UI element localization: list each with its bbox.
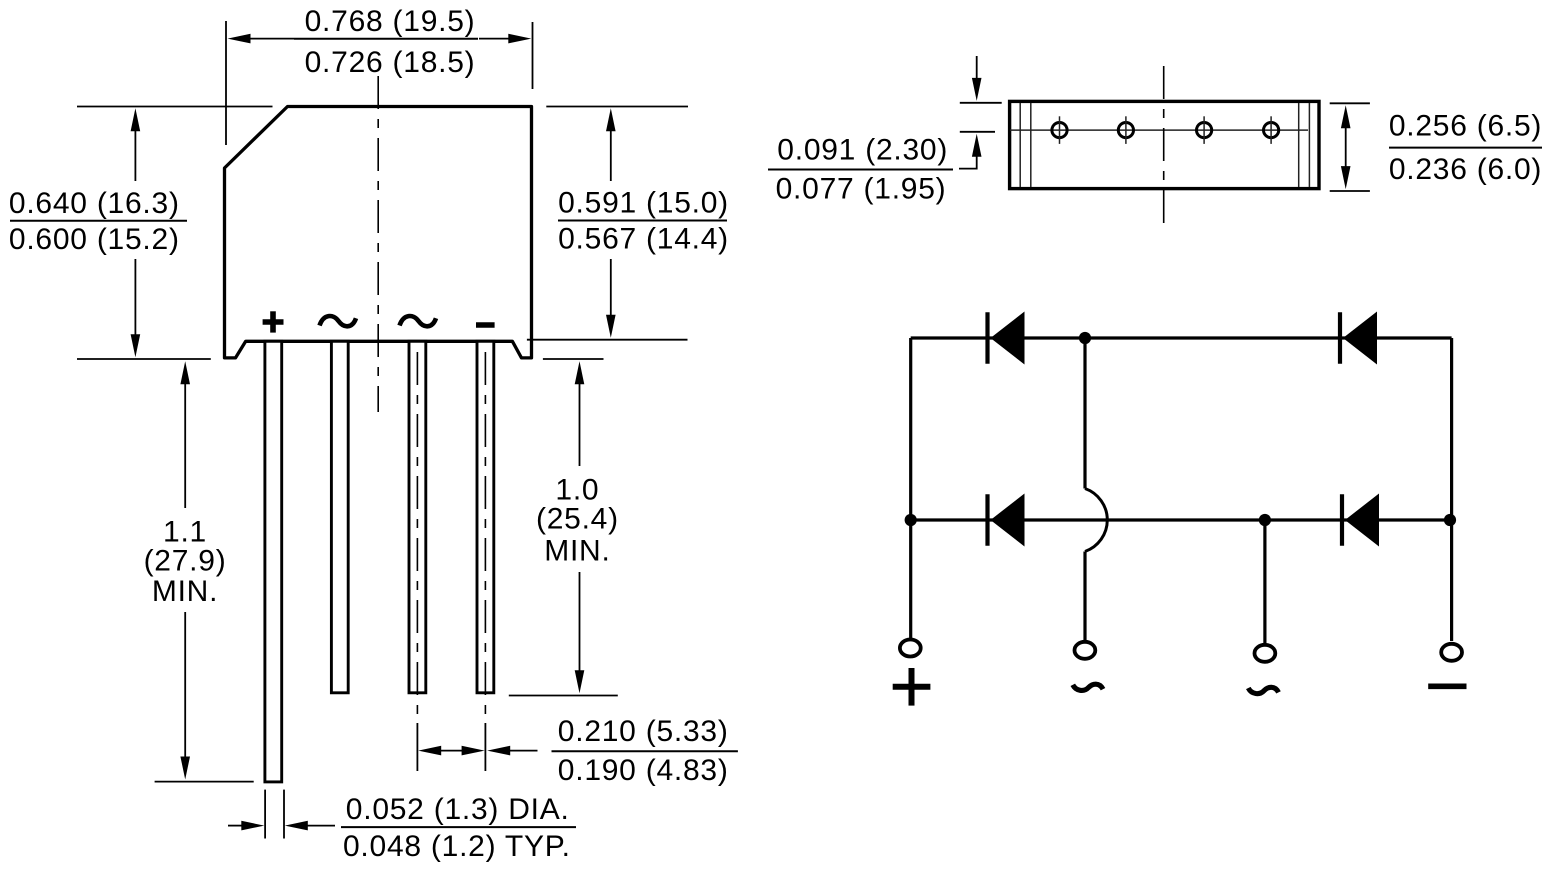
terminal circle - [1441, 644, 1462, 661]
side view: molding parting lines [1020, 103, 1309, 187]
diode D3 (middle left) [988, 494, 1025, 547]
wire: right vertical (- branch) [1450, 338, 1453, 641]
terminal circle + [900, 640, 921, 657]
side view: hole 2 [1118, 116, 1133, 144]
svg-text:0.091 (2.30): 0.091 (2.30) [777, 133, 948, 166]
front view: package body outline [225, 107, 532, 358]
svg-text:0.236 (6.0): 0.236 (6.0) [1389, 153, 1542, 186]
front view: vertical center line of body [377, 76, 379, 412]
svg-text:(27.9): (27.9) [144, 545, 227, 578]
pin 1 (+) lead [265, 341, 282, 782]
svg-text:MIN.: MIN. [544, 534, 610, 567]
diode D4 (middle right) [1342, 494, 1379, 547]
side view: hole 3 [1197, 116, 1212, 144]
svg-text:0.048 (1.2) TYP.: 0.048 (1.2) TYP. [343, 830, 571, 863]
svg-text:0.190 (4.83): 0.190 (4.83) [558, 754, 729, 787]
terminal circle AC1 [1075, 642, 1096, 659]
side view: hole center line (horizontal) [1010, 129, 1308, 131]
side view: hole 1 [1052, 116, 1067, 144]
wire: middle rail [911, 518, 1452, 521]
extension line: body top left [77, 106, 273, 108]
dimension: hole offset 0.091 (2.30) / 0.077 (1.95) [768, 56, 1002, 205]
dimension: body height 0.640 (16.3) / 0.600 (15.2) [9, 108, 187, 357]
svg-text:0.768 (19.5): 0.768 (19.5) [305, 5, 476, 38]
terminal label + [893, 668, 931, 706]
dimension: lead length 1.0 (25.4) MIN. [509, 359, 619, 696]
svg-text:MIN.: MIN. [152, 575, 218, 608]
dimension: body height 0.256 (6.5) / 0.236 (6.0) [1330, 103, 1542, 191]
terminal label ~ (AC1) [1073, 684, 1103, 690]
dimension: lead length 1.1 (27.9) MIN. [144, 361, 254, 781]
svg-text:0.591 (15.0): 0.591 (15.0) [558, 187, 729, 220]
diode D1 (top left, cathode to + rail) [988, 312, 1025, 365]
svg-text:0.567 (14.4): 0.567 (14.4) [558, 223, 729, 256]
diode D2 (top right) [1340, 312, 1377, 365]
polarity mark ~ (pin 3) [400, 316, 437, 326]
extension line: seating plane left [77, 358, 211, 360]
svg-text:0.726 (18.5): 0.726 (18.5) [305, 46, 476, 79]
junction: middle rail / AC2 node [1259, 514, 1271, 526]
terminal label - [1428, 683, 1466, 689]
polarity mark - (pin 4) [476, 322, 495, 328]
svg-text:0.210 (5.33): 0.210 (5.33) [558, 715, 729, 748]
dimension: lead pitch 0.210 (5.33) / 0.190 (4.83) [417, 715, 738, 787]
pin 4 center line [484, 352, 486, 723]
dimension: package width 0.768 (19.5) / 0.726 (18.5) [226, 5, 533, 145]
side view: vertical center line [1163, 66, 1165, 226]
pin 4 (-) lead [477, 341, 494, 693]
svg-text:0.256 (6.5): 0.256 (6.5) [1389, 110, 1542, 143]
dimension: body height 0.591 (15.0) / 0.567 (14.4) [558, 108, 729, 337]
svg-text:(25.4): (25.4) [536, 503, 619, 536]
svg-text:0.052 (1.3) DIA.: 0.052 (1.3) DIA. [346, 793, 570, 826]
pin 3 center line [416, 352, 418, 723]
wire: left vertical (+ branch) [909, 338, 912, 638]
dimension: lead width 0.052 (1.3) DIA. / 0.048 (1.2) TYP. [228, 790, 576, 864]
polarity mark ~ (pin 2) [320, 316, 357, 326]
pin 3 (AC) lead [409, 341, 426, 693]
wire: AC2 branch [1263, 520, 1266, 644]
polarity mark + (pin 1) [263, 319, 284, 325]
extension line: body bottom right (0.591 ref) [527, 339, 688, 341]
svg-text:0.640 (16.3): 0.640 (16.3) [9, 187, 180, 220]
terminal circle AC2 [1255, 645, 1276, 662]
extension line: body top right [546, 106, 688, 108]
junction: middle rail / + node [905, 514, 917, 526]
terminal label ~ (AC2) [1248, 687, 1278, 693]
wire: AC1 branch with crossover hop [1085, 338, 1107, 641]
pin 2 (AC) lead [331, 341, 348, 693]
side view: package body [1010, 101, 1319, 188]
side view: hole 4 [1264, 116, 1279, 144]
svg-text:0.077 (1.95): 0.077 (1.95) [776, 172, 947, 205]
junction: middle rail / - node [1444, 514, 1456, 526]
svg-text:0.600 (15.2): 0.600 (15.2) [9, 223, 180, 256]
wire: top rail [911, 336, 1452, 339]
junction: top rail / AC1 node [1079, 332, 1091, 344]
